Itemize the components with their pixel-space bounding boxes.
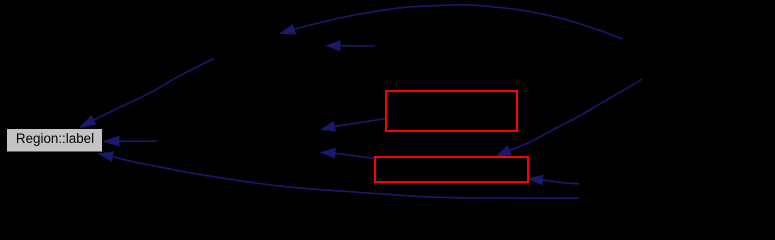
svg-text:Region::label: Region::label [16, 131, 94, 146]
